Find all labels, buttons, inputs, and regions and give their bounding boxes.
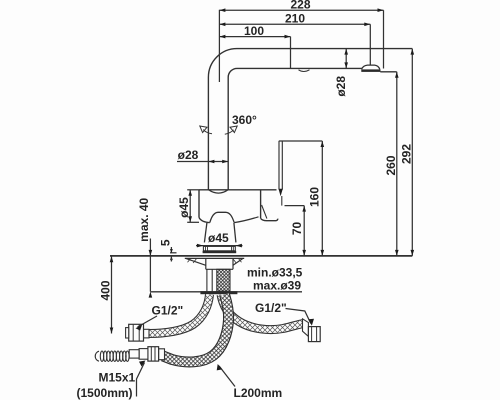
handle hub bottom	[261, 218, 278, 220]
slab left edge / max40 dim line	[149, 239, 151, 292]
svg-text:260: 260	[384, 155, 398, 175]
left supply hose	[149, 295, 210, 334]
dim 228 ext right	[383, 10, 385, 68]
right hose cone	[303, 319, 309, 337]
body left edge	[198, 190, 200, 218]
right supply hose	[221, 295, 303, 330]
dim 100 arrows	[219, 35, 290, 39]
threaded rod hatched	[217, 269, 230, 291]
corrugated hose rings	[95, 351, 99, 361]
washer bar	[200, 291, 237, 294]
dim phi28 vertical (spout tube) line	[345, 49, 347, 69]
svg-text:ø45: ø45	[177, 197, 191, 218]
svg-text:70: 70	[290, 222, 304, 236]
dim phi28 riser line	[177, 161, 228, 163]
spray head plinth bar	[361, 69, 380, 72]
dim 210 arrows	[219, 23, 370, 27]
svg-text:ø28: ø28	[334, 76, 348, 97]
right G nut	[308, 327, 320, 342]
dim 228 extension line left (riser axis)	[218, 10, 220, 82]
svg-text:5: 5	[159, 239, 173, 246]
left G nut	[129, 324, 144, 341]
left hose fitting	[144, 329, 150, 338]
svg-text:max. 40: max. 40	[137, 197, 151, 241]
svg-text:400: 400	[98, 280, 112, 300]
spout inner outline	[228, 68, 361, 190]
leader G1/2 right	[286, 309, 311, 324]
body center dome	[210, 212, 234, 222]
swivel arrow right	[225, 130, 234, 134]
dim 70 line	[303, 206, 305, 256]
hub right edge	[281, 196, 283, 206]
dim 160 line	[321, 141, 323, 256]
dim 70 ext	[285, 205, 305, 207]
column right edge	[234, 223, 236, 243]
spray head dome	[362, 65, 380, 69]
spray head step line	[380, 71, 396, 73]
M15 nut	[148, 347, 159, 361]
dim 292 line	[411, 49, 413, 256]
pull-out hose	[163, 295, 229, 362]
dim phi45 base line with outside arrows	[196, 245, 243, 247]
flange hatch	[188, 259, 242, 263]
svg-text:L200mm: L200mm	[234, 386, 283, 400]
svg-text:M15x1: M15x1	[99, 371, 136, 385]
body right edge	[260, 190, 262, 219]
leader M15x1	[137, 363, 145, 397]
handle hub diagonal	[262, 205, 267, 219]
svg-text:ø28: ø28	[178, 148, 199, 162]
leader G1/2 left	[138, 316, 158, 327]
svg-text:292: 292	[400, 144, 414, 164]
shank inner tube	[207, 269, 212, 291]
pipe root fillet dip	[208, 190, 228, 193]
dim 400 line	[111, 256, 113, 333]
lever blade	[279, 141, 282, 190]
svg-text:min.ø33,5: min.ø33,5	[247, 266, 303, 280]
svg-text:G1/2": G1/2"	[152, 304, 184, 318]
M15 plain tube	[129, 350, 139, 358]
dim 228 arrows	[219, 8, 383, 12]
flange top	[185, 257, 244, 259]
svg-text:360°: 360°	[232, 113, 257, 127]
dim phi45 body line	[189, 190, 191, 223]
countertop line	[110, 255, 412, 257]
flange stem	[206, 259, 233, 270]
column left edge	[204, 223, 207, 243]
dim 228 line	[219, 9, 383, 11]
body right bottom slant	[234, 217, 258, 223]
svg-text:228: 228	[290, 0, 310, 12]
dim 100 ext tick across spout	[290, 37, 292, 69]
svg-text:max.ø39: max.ø39	[253, 279, 301, 293]
left nut collar	[126, 328, 129, 338]
leader L200mm	[219, 366, 235, 387]
dim phi45 body ext lines	[187, 189, 199, 191]
svg-text:G1/2": G1/2"	[255, 301, 287, 315]
dim 100 line	[219, 36, 290, 38]
body top line	[199, 189, 277, 191]
lever top line	[279, 140, 323, 142]
base block	[203, 246, 235, 250]
dim 210 ext right	[369, 24, 371, 65]
M15 fitting	[139, 349, 148, 360]
flange right slant	[233, 258, 243, 265]
body left bottom concave	[199, 218, 210, 223]
svg-text:100: 100	[244, 24, 264, 38]
slab bottom line	[150, 291, 302, 293]
dim 210 line	[219, 23, 370, 25]
M15 cone	[159, 349, 165, 360]
svg-text:(1500mm): (1500mm)	[77, 386, 133, 400]
swivel arrow left	[203, 130, 212, 134]
joint detail arc under spout	[299, 70, 310, 72]
flange left slant	[186, 258, 206, 265]
dim 5 ticks	[170, 247, 172, 253]
svg-text:210: 210	[285, 12, 305, 26]
dim 260 line	[396, 72, 398, 256]
spout top outline with bend, extends right to 292 extension	[208, 49, 412, 190]
base plate bar	[203, 251, 237, 253]
svg-text:ø45: ø45	[208, 231, 229, 245]
svg-text:160: 160	[308, 187, 322, 207]
